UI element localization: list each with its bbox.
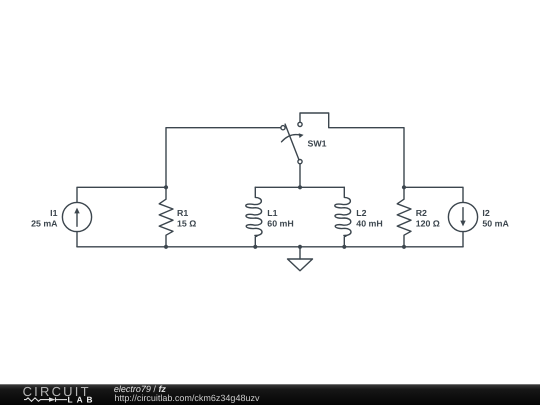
svg-text:L2: L2 [356, 208, 366, 218]
footer black bar [0, 384, 540, 405]
junction dot L2 bottom [342, 245, 346, 249]
svg-text:LAB: LAB [68, 394, 97, 404]
wire I2 bottom stub [462, 232, 464, 247]
CircuitLab logo resistor-diode glyph [24, 397, 67, 401]
svg-text:R1: R1 [177, 208, 188, 218]
wire R1 top node up to upper-left horizontal [166, 128, 281, 188]
svg-text:R2: R2 [416, 208, 427, 218]
svg-text:60 mH: 60 mH [267, 219, 293, 229]
svg-text:http://circuitlab.com/ckm6z34g: http://circuitlab.com/ckm6z34g48uzv [114, 393, 260, 403]
switch SW1 [281, 122, 304, 163]
junction dot R1 top [164, 185, 168, 189]
ground [288, 247, 313, 271]
svg-text:15 Ω: 15 Ω [177, 219, 196, 229]
junction dot ground node [298, 245, 302, 249]
resistor R2 [397, 187, 411, 247]
junction dot R1 bottom [164, 245, 168, 249]
resistor R1 [159, 187, 173, 247]
current source I2 [448, 202, 477, 231]
svg-text:SW1: SW1 [308, 139, 327, 149]
inductor L2 [335, 187, 351, 247]
junction dot L1 bottom [253, 245, 257, 249]
wire switch top terminal detour to R2 top [300, 113, 404, 187]
inductor L1 [246, 187, 262, 247]
svg-text:25 mA: 25 mA [31, 219, 58, 229]
wire I1 bottom stub [76, 232, 78, 247]
wire R2 top to I2 top [404, 187, 463, 202]
junction dot R2 top [402, 185, 406, 189]
wire bottom rail [77, 246, 463, 248]
wire I1 top to R1 top node [77, 187, 166, 202]
svg-text:50 mA: 50 mA [482, 219, 509, 229]
svg-text:L1: L1 [267, 208, 277, 218]
junction dot R2 bottom [402, 245, 406, 249]
svg-text:120 Ω: 120 Ω [416, 219, 440, 229]
svg-text:40 mH: 40 mH [356, 219, 382, 229]
wire inductor top rail L1 to L2 [255, 186, 344, 188]
svg-text:I2: I2 [482, 208, 489, 218]
current source I1 [62, 202, 91, 231]
junction dot switch pole at top rail [298, 185, 302, 189]
wire switch pole down to inductor top rail [299, 164, 301, 188]
svg-text:I1: I1 [50, 208, 57, 218]
